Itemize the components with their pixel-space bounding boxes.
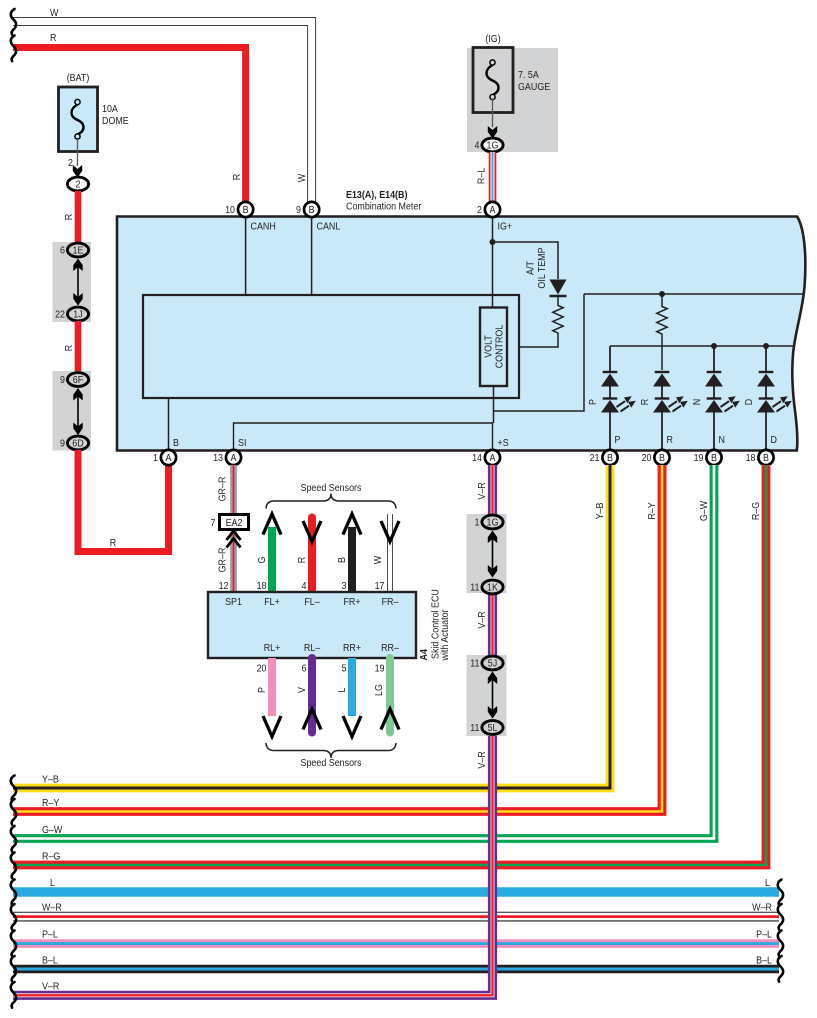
svg-text:G–W: G–W <box>42 824 63 836</box>
pin 13 A <box>213 450 241 465</box>
svg-text:17: 17 <box>375 580 385 592</box>
svg-text:N: N <box>691 399 703 405</box>
svg-text:11: 11 <box>470 582 479 594</box>
svg-text:GR–R: GR–R <box>217 477 229 502</box>
bus wire W-R <box>13 912 779 922</box>
svg-text:CANH: CANH <box>251 221 276 233</box>
svg-text:22: 22 <box>55 309 65 321</box>
svg-text:A: A <box>231 452 237 464</box>
sensor arrow RL- V <box>296 658 321 733</box>
svg-text:6: 6 <box>302 663 307 675</box>
svg-text:18: 18 <box>257 580 267 592</box>
svg-text:G: G <box>256 557 268 564</box>
svg-text:A: A <box>166 452 172 464</box>
sensor arrow FR- W <box>372 514 399 592</box>
svg-text:2: 2 <box>76 179 81 191</box>
svg-text:DOME: DOME <box>102 115 129 127</box>
svg-text:R: R <box>639 399 651 405</box>
svg-text:Speed Sensors: Speed Sensors <box>301 482 362 494</box>
break symbol G-W left <box>11 826 16 852</box>
wire V-R pin 14 down to bus <box>13 465 493 995</box>
svg-text:7: 7 <box>211 517 216 529</box>
svg-text:R–Y: R–Y <box>42 797 60 809</box>
junction block 5J / 5L <box>467 655 507 736</box>
LED chain D <box>743 346 791 450</box>
svg-text:6: 6 <box>60 245 65 257</box>
LED rail 1 <box>584 293 804 295</box>
bus wire R-G <box>13 465 766 865</box>
connector 4 1G <box>475 138 504 152</box>
ground connector EA2 <box>211 515 249 530</box>
svg-text:(BAT): (BAT) <box>67 72 90 84</box>
svg-text:P: P <box>587 399 599 405</box>
wire volt control bottom to sub box and LED rail riser <box>494 294 585 423</box>
svg-text:7. 5A: 7. 5A <box>518 69 539 81</box>
skid control ECU box A4 <box>208 589 451 661</box>
break symbol P-L left <box>11 931 16 957</box>
sensor arrow RR- LG <box>373 658 399 733</box>
svg-text:14: 14 <box>472 452 482 464</box>
svg-text:6D: 6D <box>72 438 83 450</box>
svg-text:1E: 1E <box>73 245 84 257</box>
svg-text:Speed Sensors: Speed Sensors <box>301 757 362 769</box>
svg-text:19: 19 <box>375 663 385 675</box>
svg-text:E13(A), E14(B): E13(A), E14(B) <box>346 189 407 201</box>
combination meter box E13(A) E14(B) <box>117 189 805 450</box>
wire IG+ internal <box>492 217 494 308</box>
pin 21 B <box>590 450 618 465</box>
wire fuse BAT to connector 2 with arrow <box>68 139 82 178</box>
break symbol P-L right <box>778 931 783 957</box>
svg-text:A: A <box>490 452 496 464</box>
svg-text:N: N <box>719 434 725 446</box>
svg-text:10A: 10A <box>102 103 118 115</box>
svg-text:LG: LG <box>373 684 385 696</box>
svg-text:R: R <box>63 345 75 351</box>
svg-text:V–R: V–R <box>42 981 59 993</box>
node rail2 D <box>763 343 769 349</box>
wire CANL internal <box>311 217 313 295</box>
wire CANH internal <box>245 217 247 295</box>
LED chain R <box>639 372 687 450</box>
meter SI +S sub box <box>234 423 493 450</box>
svg-text:V–R: V–R <box>476 611 488 628</box>
ground shield chevrons below EA2 <box>227 531 241 548</box>
svg-text:FR+: FR+ <box>343 596 360 608</box>
svg-text:1G: 1G <box>487 140 499 152</box>
svg-text:11: 11 <box>470 722 479 734</box>
svg-text:L: L <box>336 687 348 692</box>
fuse 7.5A GAUGE (IG) gray panel <box>467 33 558 152</box>
sensor arrow FL+ G <box>256 514 281 592</box>
bus wire L <box>13 887 779 897</box>
break symbol R-Y left <box>11 799 16 825</box>
svg-text:V–R: V–R <box>476 751 488 768</box>
svg-text:9: 9 <box>296 204 301 216</box>
svg-text:B: B <box>711 452 717 464</box>
svg-text:1J: 1J <box>73 309 83 321</box>
svg-text:1K: 1K <box>487 582 498 594</box>
break symbol R left <box>11 36 16 62</box>
pin 18 B <box>746 450 774 465</box>
svg-text:W: W <box>372 555 384 564</box>
svg-text:A/T: A/T <box>525 261 537 275</box>
pin 19 B <box>694 450 722 465</box>
wire R horizontal top feeding CANH <box>13 48 246 204</box>
svg-text:W: W <box>296 173 308 182</box>
sensor arrow RR+ L <box>336 658 361 737</box>
break symbol B-L left <box>11 956 16 982</box>
svg-text:B: B <box>659 452 665 464</box>
LED chain N <box>691 346 739 450</box>
svg-text:P–L: P–L <box>756 929 772 941</box>
svg-text:FL–: FL– <box>304 596 320 608</box>
svg-text:(IG): (IG) <box>485 33 500 45</box>
junction block 6F / 6D <box>53 371 92 451</box>
svg-text:1: 1 <box>475 517 480 529</box>
svg-text:5J: 5J <box>488 658 498 670</box>
break symbol W-R right <box>778 904 783 930</box>
svg-text:L: L <box>50 877 55 889</box>
svg-text:CONTROL: CONTROL <box>494 324 506 368</box>
svg-text:1: 1 <box>153 452 158 464</box>
sensor arrow FL- R <box>296 518 321 593</box>
svg-text:4: 4 <box>302 580 307 592</box>
svg-text:R–Y: R–Y <box>646 502 658 520</box>
svg-text:6F: 6F <box>73 374 83 386</box>
svg-text:4: 4 <box>475 140 480 152</box>
pin 9 B <box>296 202 319 217</box>
svg-text:2: 2 <box>477 204 482 216</box>
svg-text:CANL: CANL <box>317 221 341 233</box>
svg-text:RL–: RL– <box>304 642 321 654</box>
svg-text:R: R <box>296 557 308 563</box>
junction block 1G / 1K <box>467 514 507 594</box>
svg-text:Y–B: Y–B <box>594 503 606 520</box>
pin 10 B <box>225 202 253 217</box>
svg-text:SP1: SP1 <box>225 596 242 608</box>
wire W horizontal top feeding CANL <box>13 22 312 204</box>
bus wire P-L <box>13 939 779 948</box>
svg-text:P: P <box>615 434 621 446</box>
volt control box <box>480 308 507 387</box>
wire GR-R pin 13 to EA2 to ECU <box>230 465 237 592</box>
svg-text:5L: 5L <box>488 722 498 734</box>
svg-text:B: B <box>309 204 315 216</box>
svg-text:OIL TEMP: OIL TEMP <box>536 247 548 288</box>
wire R connector 2 to 1E <box>75 191 82 243</box>
svg-text:B–L: B–L <box>42 955 58 967</box>
svg-text:A: A <box>490 204 496 216</box>
break symbol Y-B left <box>11 776 16 802</box>
svg-text:R–G: R–G <box>42 851 60 863</box>
pin 1 A <box>153 450 176 465</box>
svg-text:P–L: P–L <box>42 929 58 941</box>
break symbol W left <box>11 9 16 35</box>
svg-text:SI: SI <box>238 437 246 449</box>
svg-text:5: 5 <box>342 663 347 675</box>
wire B internal <box>168 398 170 450</box>
speed sensors brace bottom <box>266 743 396 758</box>
svg-text:P: P <box>256 687 268 693</box>
svg-text:19: 19 <box>694 452 704 464</box>
node resistor top <box>659 291 665 297</box>
speed sensors brace top <box>266 494 396 509</box>
LED rail 2 <box>610 345 795 347</box>
svg-text:B: B <box>243 204 249 216</box>
svg-text:W: W <box>50 7 59 19</box>
svg-text:13: 13 <box>213 452 223 464</box>
break symbol L left <box>11 880 16 906</box>
pin 14 A <box>472 450 500 465</box>
svg-text:18: 18 <box>746 452 756 464</box>
meter inner unit box <box>143 295 519 398</box>
break symbol V-R left <box>11 982 16 1008</box>
svg-text:IG+: IG+ <box>498 221 513 233</box>
svg-text:R: R <box>231 174 243 180</box>
wire R-L connector 1G to pin 2A <box>489 152 497 203</box>
svg-text:Y–B: Y–B <box>42 774 59 786</box>
svg-text:9: 9 <box>60 374 65 386</box>
svg-text:Combination Meter: Combination Meter <box>346 201 422 213</box>
svg-text:+S: +S <box>498 437 510 449</box>
svg-text:W–R: W–R <box>42 902 62 914</box>
svg-text:G–W: G–W <box>698 500 710 521</box>
diode A/T OIL TEMP <box>525 247 567 296</box>
fuse 10A DOME (BAT) <box>59 72 130 151</box>
svg-text:11: 11 <box>470 658 479 670</box>
svg-text:20: 20 <box>257 663 267 675</box>
svg-text:R: R <box>63 214 75 220</box>
svg-text:10: 10 <box>225 204 235 216</box>
svg-text:B–L: B–L <box>756 955 772 967</box>
break symbol W-R left <box>11 904 16 930</box>
svg-text:RR–: RR– <box>381 642 399 654</box>
svg-text:R: R <box>110 537 116 549</box>
svg-text:L: L <box>765 877 770 889</box>
svg-text:21: 21 <box>590 452 600 464</box>
bus wire G-W <box>13 465 714 839</box>
svg-text:FL+: FL+ <box>264 596 280 608</box>
wire IG+ to A/T oil temp diode <box>493 242 559 279</box>
junction block 1E / 1J <box>53 242 92 322</box>
svg-text:D: D <box>771 434 777 446</box>
svg-text:EA2: EA2 <box>226 517 243 529</box>
svg-text:R–L: R–L <box>476 167 488 184</box>
bus wire B-L <box>13 965 779 974</box>
svg-text:12: 12 <box>219 580 229 592</box>
svg-text:20: 20 <box>642 452 652 464</box>
svg-text:GR–R: GR–R <box>217 548 229 573</box>
LED chain P <box>587 346 635 450</box>
resistor below A/T diode <box>519 296 563 347</box>
wire R 6D down right and up to pin 1A <box>78 450 169 552</box>
svg-text:RL+: RL+ <box>264 642 281 654</box>
svg-text:2: 2 <box>68 157 73 169</box>
svg-text:1G: 1G <box>487 517 499 529</box>
svg-text:B: B <box>763 452 769 464</box>
svg-text:V–R: V–R <box>476 482 488 499</box>
break symbol R-G left <box>11 853 16 879</box>
node IG+ branch <box>490 239 496 245</box>
svg-text:R–G: R–G <box>750 502 762 520</box>
svg-text:B: B <box>336 557 348 563</box>
svg-text:R: R <box>50 32 56 44</box>
svg-text:B: B <box>173 437 179 449</box>
svg-text:A4: A4 <box>418 649 430 661</box>
resistor R indicator <box>657 294 667 370</box>
svg-text:FR–: FR– <box>382 596 399 608</box>
wire fuse IG to connector 1G with arrow <box>488 99 497 139</box>
svg-text:W–R: W–R <box>752 902 772 914</box>
svg-text:3: 3 <box>342 580 347 592</box>
sensor arrow FR+ B <box>336 514 361 592</box>
break symbol B-L right <box>778 956 783 982</box>
bus wire R-Y <box>13 465 662 812</box>
break symbol L right <box>778 880 783 906</box>
node rail2 N <box>711 343 717 349</box>
svg-text:R: R <box>667 434 673 446</box>
bus wire Y-B <box>13 465 610 788</box>
sensor arrow RL+ P <box>256 658 281 737</box>
svg-text:B: B <box>607 452 613 464</box>
wire R 1J to 6F <box>75 321 82 373</box>
svg-text:GAUGE: GAUGE <box>518 81 551 93</box>
connector 2 <box>67 177 88 191</box>
svg-text:V: V <box>296 687 308 693</box>
svg-text:RR+: RR+ <box>343 642 361 654</box>
pin 20 B <box>642 450 670 465</box>
svg-text:D: D <box>743 399 755 405</box>
svg-text:with Actuator: with Actuator <box>439 609 451 662</box>
svg-text:9: 9 <box>60 438 65 450</box>
pin 2 A <box>477 202 500 217</box>
